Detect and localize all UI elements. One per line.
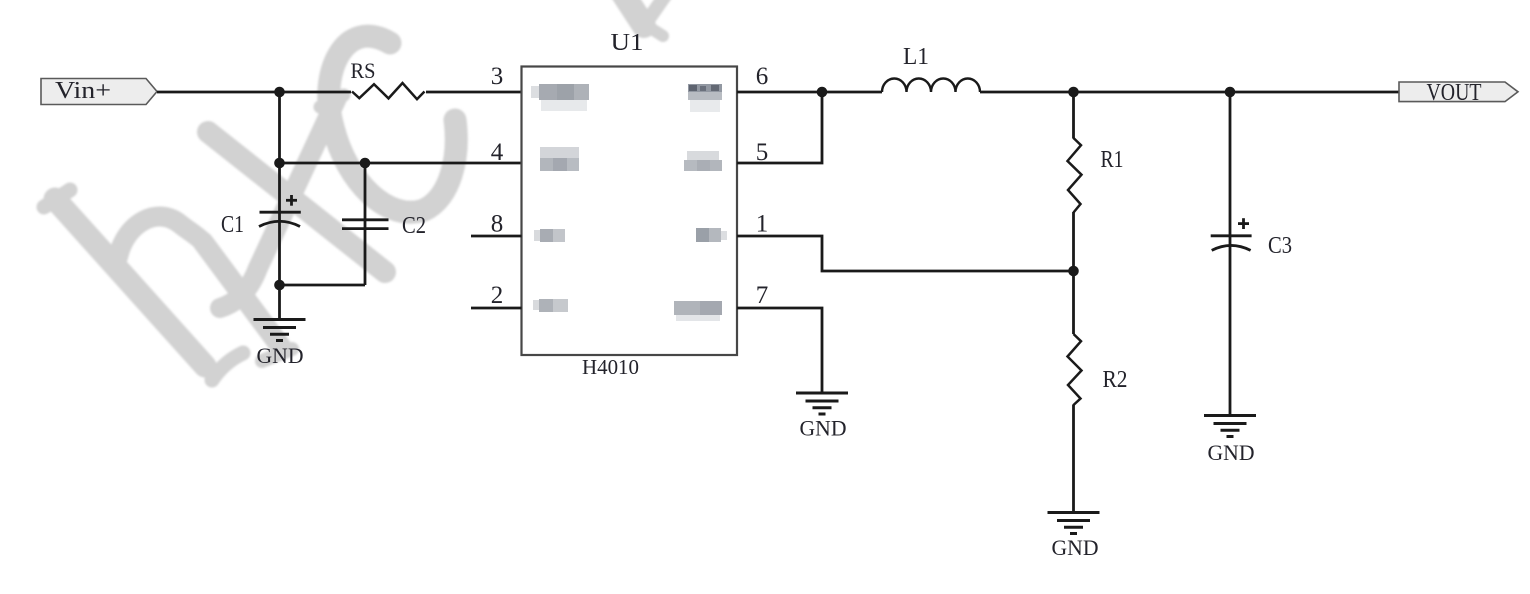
- capacitor C2: [342, 213, 426, 239]
- svg-text:Vin+: Vin+: [55, 78, 111, 104]
- wire C2 bottom down and left to junction D: [280, 284, 366, 287]
- resistor RS: [351, 58, 425, 99]
- svg-text:R1: R1: [1101, 147, 1124, 173]
- wire L1 to VOUT: [980, 91, 1399, 94]
- svg-text:C1: C1: [221, 212, 244, 238]
- wire junction G down to C3: [1229, 92, 1232, 416]
- wire junction B down to C1: [278, 163, 281, 285]
- pin name mosaic pin5: [684, 151, 722, 171]
- capacitor C3: [1211, 218, 1292, 259]
- svg-text:L1: L1: [903, 44, 929, 70]
- wire junction E down to pin 5: [737, 92, 822, 163]
- wire Vin+ to RS: [157, 91, 351, 94]
- svg-text:GND: GND: [1208, 440, 1255, 465]
- node junction C (C2 tap): [360, 158, 371, 169]
- wire junction H to R2: [1072, 271, 1075, 334]
- node VOUT port: [1399, 80, 1518, 106]
- svg-text:GND: GND: [800, 416, 847, 441]
- pin name mosaic pin2: [533, 299, 568, 312]
- svg-text:C3: C3: [1268, 233, 1292, 259]
- node junction D (C1/C2 bottom): [274, 280, 285, 291]
- node junction B (pin-4 net, C1 top): [274, 158, 285, 169]
- ground GND3 (R2): [1048, 513, 1100, 561]
- wire R2 to ground: [1072, 405, 1075, 513]
- svg-text:RS: RS: [351, 58, 376, 83]
- wire pin 8 stub: [471, 235, 522, 238]
- wire pin 7 to ground: [737, 308, 822, 393]
- node junction H (R1/R2 divider): [1068, 266, 1079, 277]
- wire pin 2 stub: [471, 307, 522, 310]
- pin name mosaic pin8: [534, 229, 565, 242]
- svg-text:GND: GND: [257, 343, 304, 368]
- svg-text:GND: GND: [1052, 535, 1099, 560]
- node junction E (pin6/pin5): [817, 87, 828, 98]
- node junction A (Vin net / C1 tap): [274, 87, 285, 98]
- svg-text:3: 3: [491, 63, 504, 90]
- ground GND1 (input caps): [254, 320, 306, 369]
- IC U1 (H4010 regulator, 8-pin body): [522, 30, 738, 379]
- resistor R2: [1068, 334, 1128, 405]
- wire pin 1 to feedback node: [737, 236, 1074, 271]
- pin name mosaic pin1: [696, 228, 727, 242]
- svg-text:H4010: H4010: [582, 355, 639, 379]
- svg-text:2: 2: [491, 282, 504, 309]
- pin name mosaic pin7: [674, 301, 722, 321]
- pin name mosaic pin3: [531, 84, 589, 111]
- svg-text:7: 7: [756, 282, 769, 309]
- pin name mosaic pin6: [688, 84, 722, 112]
- node junction G (C3 tap): [1225, 87, 1236, 98]
- svg-text:R2: R2: [1103, 367, 1128, 393]
- wire R1 to junction H: [1072, 212, 1075, 271]
- svg-text:8: 8: [491, 211, 504, 238]
- svg-text:C2: C2: [402, 213, 426, 239]
- node Vin+ port: [41, 78, 157, 105]
- wire junction D to ground: [278, 285, 281, 320]
- svg-text:U1: U1: [611, 30, 644, 56]
- wire pin 6 to L1: [737, 91, 882, 94]
- svg-text:6: 6: [756, 63, 769, 90]
- ground GND4 (C3): [1204, 416, 1256, 466]
- wire pin-4 net horizontal: [280, 162, 522, 165]
- pin name mosaic pin4: [540, 147, 579, 171]
- wire junction A down to pin-4 net: [278, 92, 281, 163]
- resistor R1: [1068, 138, 1124, 213]
- inductor L1: [882, 44, 980, 92]
- svg-text:VOUT: VOUT: [1427, 80, 1482, 106]
- svg-text:4: 4: [491, 139, 504, 166]
- svg-text:1: 1: [756, 211, 769, 238]
- wire junction C down to C2: [364, 163, 367, 285]
- node junction F (R1 tap): [1068, 87, 1079, 98]
- wire junction F down to R1: [1072, 92, 1075, 139]
- wire RS to pin 3: [426, 91, 522, 94]
- capacitor C1: [221, 195, 301, 238]
- ground GND2 (pin 7): [796, 393, 848, 441]
